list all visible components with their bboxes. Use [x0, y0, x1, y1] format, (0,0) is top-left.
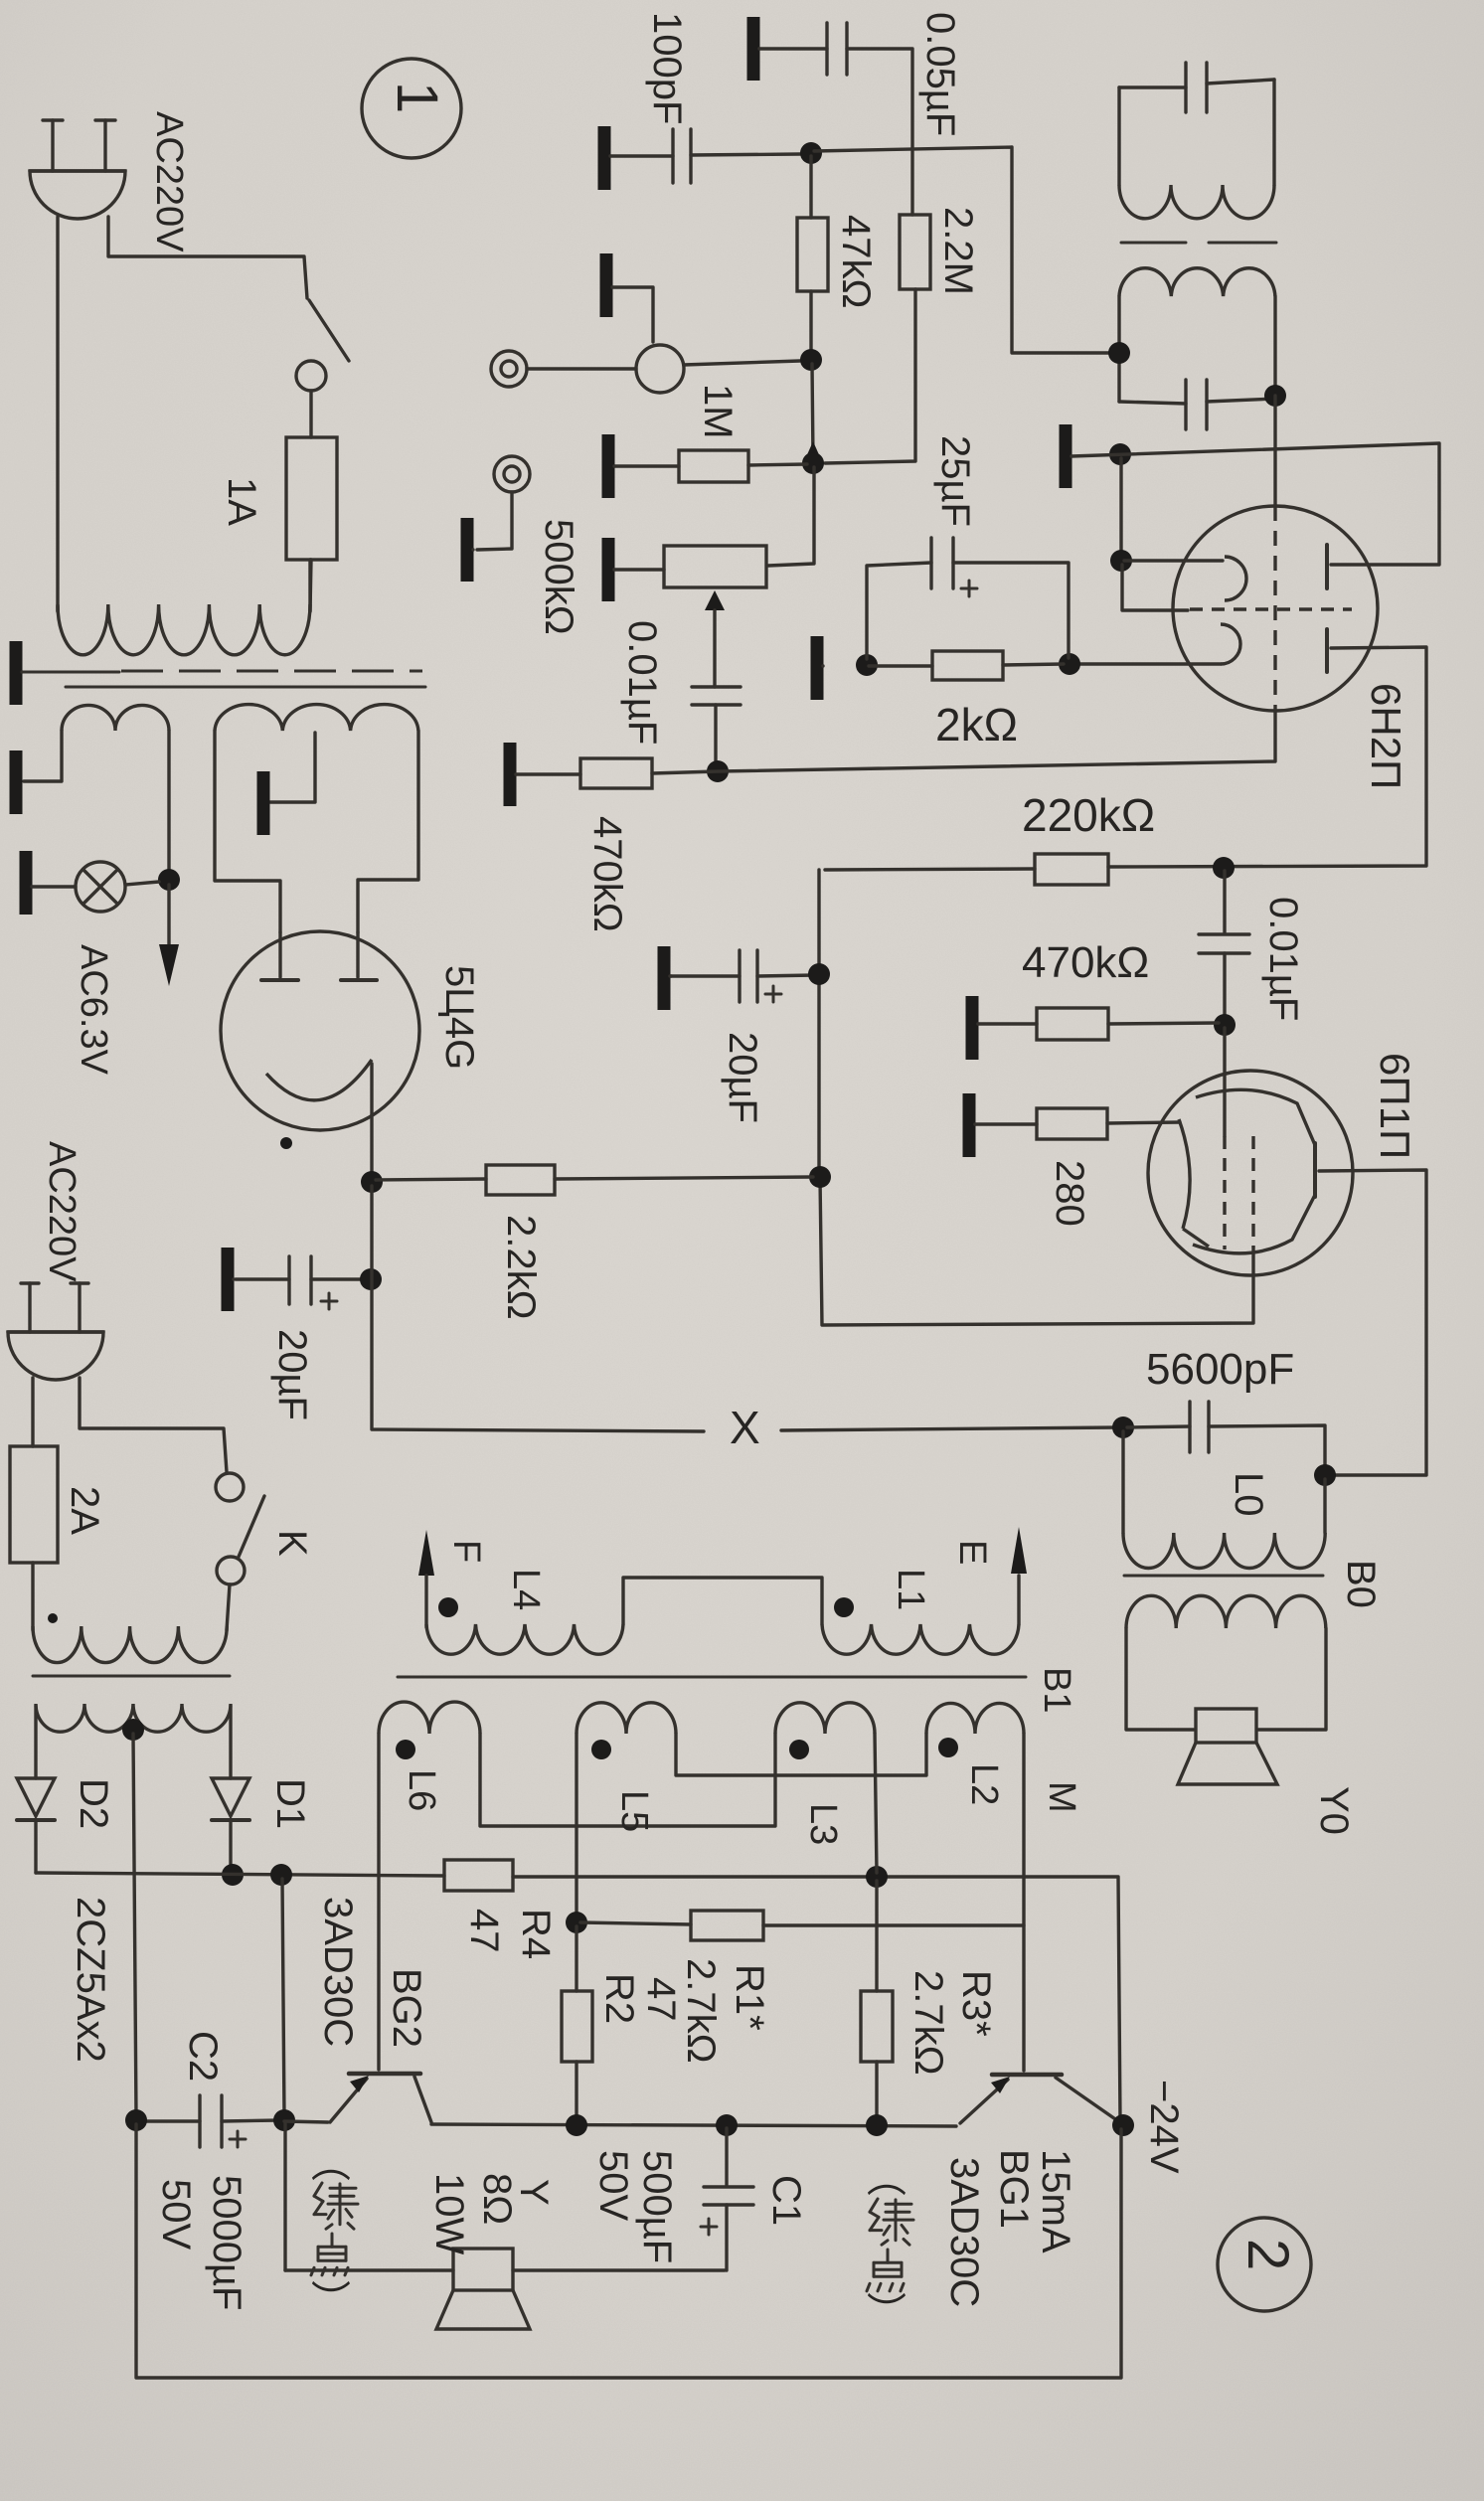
svg-text:L1: L1 [890, 1569, 931, 1610]
tube 5U4G envelope [221, 931, 419, 1130]
transistor BG1 [992, 2073, 1062, 2078]
jack J1 [491, 351, 527, 387]
capacitor C1 [725, 2128, 728, 2185]
arrow AC6.3V [167, 885, 170, 946]
capacitor 0.01uF (1) [692, 685, 741, 688]
ground 20uF (2) [222, 1248, 235, 1311]
coil L2 [926, 1703, 1024, 1734]
AC plug P1 [30, 171, 125, 219]
wire L5 to R1 [575, 1734, 577, 1918]
wire T2 tap down [133, 1734, 136, 2116]
svg-text:3AD30C: 3AD30C [316, 1897, 360, 2047]
wire L3 right to R3 [875, 1734, 877, 1873]
svg-text:50V: 50V [591, 2150, 635, 2221]
volume pot wiper circle [636, 345, 684, 393]
transformer T1 HV winding [215, 705, 418, 731]
wire X rail right [781, 1427, 1119, 1430]
coil L6 [379, 1702, 480, 1734]
wire L6 right [480, 1734, 775, 1826]
svg-text:2kΩ: 2kΩ [935, 699, 1018, 750]
svg-text:K: K [270, 1530, 314, 1557]
fuse 2A [10, 1446, 58, 1563]
wire rectified rail [36, 1873, 444, 1876]
switch K contact 2 [217, 1557, 245, 1584]
svg-text:（: （ [863, 2157, 907, 2197]
node osc left [1108, 342, 1130, 364]
T1 core solid [66, 686, 425, 689]
svg-text:C1: C1 [764, 2175, 808, 2226]
svg-text:L5: L5 [613, 1790, 655, 1832]
B0 secondary [1126, 1595, 1326, 1628]
tube 6H2P shield dashed [1273, 506, 1276, 711]
svg-text:0.01µF: 0.01µF [1261, 897, 1305, 1021]
ground 500k [602, 538, 615, 601]
transformer T1 primary [58, 604, 310, 655]
node 9 [1214, 1014, 1236, 1036]
svg-text:8Ω: 8Ω [475, 2173, 519, 2225]
tube 6P1P plate [1313, 1143, 1317, 1197]
osc lower winding [1119, 268, 1275, 296]
wire L5 right [676, 1734, 926, 1775]
node 4 grid wire [707, 760, 729, 782]
svg-text:5600pF: 5600pF [1146, 1345, 1294, 1394]
svg-text:（: （ [307, 2142, 351, 2182]
wire plate1 loop [1072, 443, 1439, 565]
potentiometer 500k [664, 546, 766, 587]
wire cathode2 [1075, 662, 1221, 665]
node C2 right [273, 2109, 295, 2131]
tube 6H2P envelope [1173, 506, 1378, 711]
wire K to T2 [227, 1584, 230, 1630]
tube 6P1P g2 dashed [1251, 1136, 1254, 1248]
wire L4 to L1 [623, 1578, 822, 1624]
wire lamp to node [125, 882, 159, 885]
node Bplus2 [809, 1166, 831, 1188]
wire bottom frame [136, 2124, 1121, 2378]
AC plug P2 [8, 1332, 103, 1380]
svg-text:5Ц4G: 5Ц4G [437, 965, 481, 1070]
wire node5 down [1119, 458, 1122, 557]
ground 1M [602, 434, 615, 498]
svg-text:）: ） [307, 2279, 351, 2319]
node 6 [1213, 857, 1235, 879]
tube 5U4G filament [266, 1060, 372, 1100]
svg-text:25µF: 25µF [933, 435, 977, 527]
node 20uF1 [808, 963, 830, 985]
node C2 left [125, 2109, 147, 2131]
ground T1 heater [10, 750, 23, 814]
tube 6H2P cathode2 [1221, 624, 1240, 664]
ground J2 [461, 518, 474, 582]
node A grid/cathode [1110, 550, 1132, 572]
tube 6P1P g1 [1223, 1028, 1226, 1136]
capacitor 100pF [671, 129, 674, 183]
svg-text:）: ） [863, 2291, 907, 2331]
svg-text:B0: B0 [1339, 1560, 1383, 1608]
svg-text:M: M [1041, 1781, 1082, 1813]
lamp [76, 862, 125, 912]
node B cathode [1059, 653, 1080, 675]
wire node2 to node3 [812, 364, 813, 459]
wire plug1 right to switch [108, 217, 307, 298]
tube 6P1P envelope [1148, 1071, 1353, 1275]
svg-text:E: E [951, 1540, 993, 1565]
node R1 left [566, 1912, 587, 1933]
svg-text:L6: L6 [401, 1769, 442, 1811]
osc tank top winding [1119, 85, 1186, 88]
ground T1 core [10, 641, 23, 705]
svg-text:AC6.3V: AC6.3V [73, 944, 114, 1076]
node 8 [856, 654, 878, 676]
wire plug1 left to T1 [56, 217, 59, 611]
svg-text:500kΩ: 500kΩ [537, 519, 580, 635]
T2 core [33, 1675, 230, 1678]
capacitor 25uF [929, 538, 932, 588]
resistor 2.2M [900, 215, 930, 289]
node osc right [1264, 385, 1286, 407]
coil L1 [822, 1624, 1019, 1654]
svg-text:D2: D2 [72, 1778, 115, 1829]
svg-text:2.7kΩ: 2.7kΩ [907, 1970, 950, 2076]
coil L0 [1121, 1431, 1124, 1533]
svg-text:0.05µF: 0.05µF [918, 12, 962, 136]
ground 470k (2) [966, 996, 979, 1060]
ground 6H2P top [1060, 424, 1072, 488]
node R3 bottom [866, 2114, 888, 2136]
wire node to C2 [282, 1879, 284, 2116]
ground 280 [963, 1093, 976, 1157]
T1 core dashed [22, 671, 119, 674]
svg-text:47: 47 [639, 1977, 683, 2022]
wire fuse to T1 primary [310, 560, 311, 611]
resistor 470k (2) [1037, 1008, 1108, 1040]
svg-text:6H2Π: 6H2Π [1363, 683, 1409, 789]
svg-text:10W: 10W [427, 2173, 471, 2254]
svg-text:L3: L3 [802, 1803, 844, 1845]
T1 heater winding [62, 705, 169, 731]
wire node1 to osc coil [814, 147, 1115, 353]
resistor 220k [1035, 854, 1108, 885]
T1 HV center tap [270, 733, 315, 802]
coil L5 [577, 1703, 676, 1734]
osc lower cap [1184, 380, 1187, 429]
tube 6H2P cathode1 [1124, 559, 1223, 562]
diode D1 [212, 1778, 249, 1816]
tube 6P1P inner top [1196, 1089, 1315, 1145]
svg-text:5000µF: 5000µF [205, 2175, 248, 2310]
node D1 out [222, 1864, 244, 1886]
resistor R1 [691, 1911, 763, 1940]
svg-text:BG1: BG1 [992, 2149, 1036, 2229]
svg-text:AC220V: AC220V [148, 111, 190, 252]
T2 secondary [36, 1704, 231, 1732]
svg-text:2: 2 [1236, 2239, 1300, 2270]
transistor BG2 [349, 2072, 420, 2077]
stray dot [280, 1137, 292, 1149]
svg-text:47kΩ: 47kΩ [834, 215, 878, 308]
capacitor 20uF (1) [738, 950, 741, 1002]
ground 470k (1) [504, 743, 517, 806]
svg-text:50V: 50V [154, 2179, 198, 2250]
diode D2 [17, 1778, 55, 1816]
wire 100pF to node1 [691, 154, 800, 155]
arrow up at node3 [805, 441, 821, 459]
switch S1 blade [309, 300, 349, 361]
osc tank cap top [1184, 63, 1187, 112]
svg-text:2.2kΩ: 2.2kΩ [499, 1215, 543, 1320]
resistor 1M [679, 450, 748, 482]
wire fuse2 to T2 [31, 1563, 34, 1630]
node tank left [1112, 1417, 1134, 1438]
wire osc to tube shield [1273, 396, 1276, 506]
svg-text:15mA: 15mA [1034, 2149, 1077, 2253]
tube 5U4G plate1 [278, 932, 281, 977]
svg-text:1: 1 [385, 82, 449, 113]
node C2 top [270, 1864, 292, 1886]
transformer B1 core [398, 1676, 1026, 1679]
svg-text:47: 47 [462, 1909, 506, 1953]
ground 2k [811, 636, 824, 700]
svg-text:R3*: R3* [954, 1970, 998, 2037]
wire grid long [652, 711, 1275, 773]
svg-text:R2: R2 [597, 1973, 641, 2024]
svg-text:470kΩ: 470kΩ [585, 816, 629, 932]
tube 6H2P plate1 [1325, 545, 1329, 588]
svg-text:1M: 1M [696, 384, 740, 439]
resistor R4 [444, 1860, 513, 1891]
capacitor 0.05uF [825, 23, 828, 75]
svg-text:D1: D1 [268, 1778, 312, 1829]
ground 0.05uF [747, 17, 760, 81]
osc core [1121, 242, 1186, 245]
wire J2 to ground [477, 492, 512, 550]
coil L3 [775, 1703, 875, 1734]
svg-text:F: F [445, 1540, 487, 1563]
jack J2 [494, 456, 530, 492]
svg-text:500µF: 500µF [635, 2150, 679, 2263]
svg-text:R1*: R1* [728, 1964, 771, 2031]
wire plug2 left [31, 1378, 34, 1446]
svg-text:X: X [730, 1402, 760, 1453]
switch K contact 1 [216, 1473, 244, 1501]
wire emitter rail [284, 2121, 328, 2122]
svg-text:2.7kΩ: 2.7kΩ [679, 1958, 723, 2064]
tube 5U4G plate2 [356, 932, 359, 977]
wire screen supply [820, 1177, 1253, 1325]
node tank right [1314, 1464, 1336, 1486]
svg-text:3AD30C: 3AD30C [942, 2157, 986, 2307]
hanzi green BG1 [870, 2199, 878, 2212]
capacitor 0.01uF (2) [1223, 871, 1226, 932]
svg-text:470kΩ: 470kΩ [1022, 938, 1149, 987]
wire 5U4G cathode [370, 1064, 373, 1178]
svg-text:100pF: 100pF [645, 12, 689, 124]
svg-text:Y0: Y0 [1312, 1786, 1356, 1835]
svg-text:AC220V: AC220V [41, 1141, 82, 1282]
node heater [158, 869, 180, 891]
svg-text:20µF: 20µF [721, 1032, 764, 1123]
node 3 [802, 452, 824, 474]
svg-text:2A: 2A [63, 1486, 106, 1535]
node filter [360, 1268, 382, 1290]
svg-text:C2: C2 [181, 2031, 225, 2082]
speaker Y0 [1196, 1709, 1256, 1743]
arrow E [1017, 1576, 1020, 1624]
wiper arrow 500k [705, 590, 725, 610]
wire 0.05uF to 2.2M [847, 49, 912, 215]
node R2 bottom [566, 2114, 587, 2136]
node 5 [1109, 443, 1131, 465]
ground 20uF (1) [658, 946, 671, 1010]
ground pot top [600, 253, 613, 317]
transformer B0 core [1124, 1575, 1323, 1578]
wire mid rail [431, 2124, 956, 2126]
svg-text:R4: R4 [514, 1909, 558, 1959]
wire L6 to BG2 base [377, 1734, 380, 2070]
node C1 top [716, 2114, 738, 2136]
wire J1 to pot [527, 367, 636, 370]
svg-text:220kΩ: 220kΩ [1022, 789, 1155, 841]
svg-text:L2: L2 [963, 1763, 1005, 1805]
svg-text:2CZ5Ax2: 2CZ5Ax2 [69, 1897, 112, 2063]
wire switch to fuse [309, 391, 312, 437]
switch S1 contact [296, 361, 326, 391]
wire speaker rail [285, 2268, 453, 2271]
node -24V [1112, 2114, 1134, 2136]
capacitor 5600pF [1188, 1402, 1191, 1452]
wire plate2 to 220k row [1108, 647, 1426, 867]
svg-text:L0: L0 [1227, 1472, 1270, 1517]
tube 6H2P grid dashed [1190, 607, 1352, 610]
tube 6P1P cathode [1179, 1119, 1190, 1229]
resistor R3 [861, 1991, 893, 2062]
svg-text:L4: L4 [505, 1569, 547, 1610]
wire X rail left [372, 1186, 704, 1431]
svg-text:6Π1Π: 6Π1Π [1372, 1053, 1418, 1159]
svg-text:BG2: BG2 [385, 1968, 428, 2048]
wire L2 to BG1 base [1022, 1734, 1025, 2071]
ground lamp [20, 851, 33, 915]
circle marker 1 [362, 59, 461, 158]
switch K blade [239, 1496, 264, 1557]
svg-text:280: 280 [1048, 1160, 1091, 1227]
speaker Y [453, 2249, 513, 2290]
wire 2.2M to node3 [825, 289, 915, 463]
wire 6P1P plate out [1319, 1170, 1426, 1475]
capacitor C2 [198, 2095, 201, 2147]
svg-text:−24V: −24V [1142, 2080, 1186, 2174]
svg-text:0.01µF: 0.01µF [620, 620, 664, 745]
node rectifier out [361, 1171, 383, 1193]
fuse 1A [286, 437, 337, 560]
ground 100pF [598, 126, 611, 190]
hanzi green BG2 [314, 2183, 322, 2196]
transformer T2 primary [33, 1626, 227, 1663]
wire rail to -24V [513, 1877, 1120, 2121]
tube 6H2P plate2 [1325, 629, 1329, 672]
node 1 [800, 142, 822, 164]
node T2 tap [122, 1719, 144, 1741]
resistor 470k (1) [580, 758, 652, 788]
wire node3 to 500k [768, 467, 814, 566]
resistor 280 [1037, 1108, 1107, 1139]
resistor R2 [562, 1991, 592, 2062]
node R3 top [866, 1866, 888, 1888]
wire Bplus riser [817, 870, 820, 1177]
wire nodeA to grid [1122, 565, 1188, 610]
svg-text:20µF: 20µF [270, 1329, 314, 1420]
coil L4 [426, 1624, 623, 1654]
wire pot to node [684, 361, 800, 365]
tube 6P1P inner bottom [1183, 1195, 1315, 1253]
node 2 [800, 349, 822, 371]
capacitor 20uF (2) [287, 1256, 290, 1304]
resistor 2k [932, 651, 1003, 680]
circle marker 2 [1218, 2218, 1311, 2311]
resistor 2.2k [486, 1165, 555, 1195]
svg-text:B1: B1 [1036, 1667, 1077, 1713]
resistor 47k [797, 218, 828, 291]
arrow F [418, 1530, 434, 1576]
svg-text:2.2M: 2.2M [936, 207, 980, 295]
svg-text:1A: 1A [220, 477, 263, 526]
wire plug2 right to K [80, 1378, 227, 1472]
